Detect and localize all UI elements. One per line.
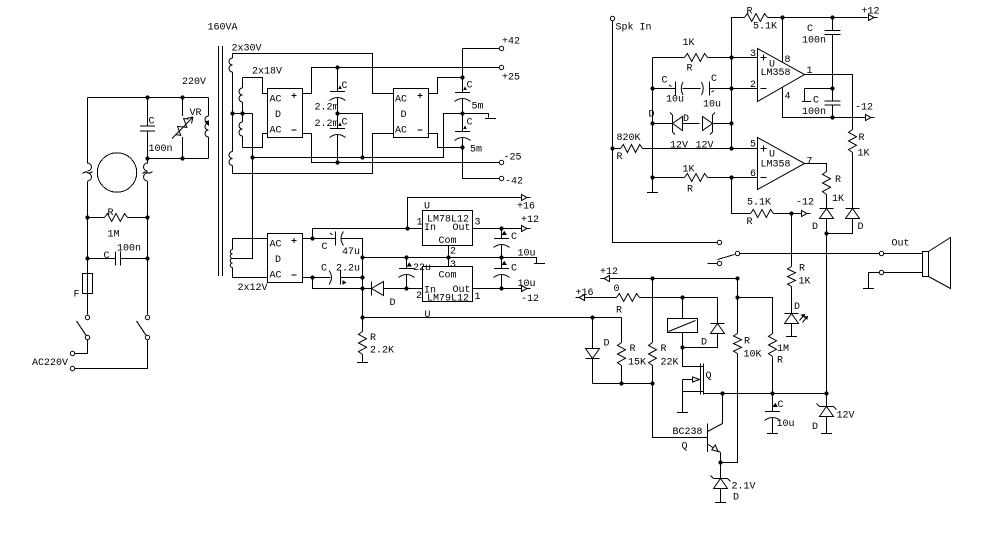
- wire -12 to LED chain: [791, 214, 793, 267]
- svg-text:C: C: [467, 81, 473, 92]
- ground below 2.1V: [715, 502, 726, 504]
- svg-text:4: 4: [785, 92, 791, 103]
- svg-text:D: D: [390, 298, 396, 309]
- node top-rail / VR junction: [180, 95, 184, 99]
- wire 2x12V bottom to rect3 AC: [233, 277, 268, 279]
- node pin6: [729, 175, 733, 179]
- node R1M right: [145, 215, 149, 219]
- svg-text:F: F: [74, 290, 80, 301]
- svg-text:LM358: LM358: [761, 68, 791, 79]
- svg-text:1: 1: [807, 66, 813, 77]
- fuse F: [74, 274, 93, 315]
- node C100n left: [85, 256, 89, 260]
- svg-text:AC220V: AC220V: [32, 358, 68, 369]
- svg-text:C: C: [321, 264, 327, 275]
- relay K coil: [668, 298, 698, 348]
- node -12 / 10u: [499, 286, 503, 290]
- wire left mains vertical (upper): [87, 98, 89, 164]
- resistor R 1K (pin6): [683, 165, 758, 196]
- svg-text:1M: 1M: [108, 230, 120, 241]
- resistor R 15K: [618, 318, 647, 384]
- resistor R 1M (timing): [738, 298, 790, 394]
- wire left mains vertical (lower): [87, 182, 89, 274]
- port +16 (regulator): [517, 195, 535, 213]
- wire mains bottom rail: [148, 158, 209, 160]
- node gate row / 22K: [650, 381, 654, 385]
- svg-text:D: D: [858, 222, 864, 233]
- transformer primary 220V winding: [205, 98, 209, 159]
- svg-text:BC238: BC238: [673, 427, 703, 438]
- svg-text:+42: +42: [502, 37, 520, 48]
- svg-text:AC: AC: [270, 271, 282, 282]
- diode D (relay flyback): [683, 298, 725, 349]
- svg-text:820K: 820K: [617, 133, 641, 144]
- svg-text:22K: 22K: [661, 358, 679, 369]
- svg-text:R: R: [747, 7, 753, 18]
- node pin8 / +12 rail: [780, 15, 784, 19]
- wire comparator chain vertical: [731, 58, 733, 149]
- svg-text:R: R: [835, 175, 841, 186]
- capacitor C 10u (-12 rail): [494, 258, 536, 291]
- svg-text:C: C: [342, 118, 348, 129]
- port +12 (op-amp): [862, 7, 880, 21]
- wire pin5 row: [732, 148, 758, 150]
- zener D 12V (timing): [812, 394, 855, 434]
- node top-rail / C junction: [145, 95, 149, 99]
- ground speaker return: [863, 288, 874, 290]
- terminal +25: [499, 65, 520, 83]
- wire zener mid: [683, 123, 700, 125]
- svg-text:-12: -12: [521, 294, 539, 305]
- wire zener row right: [713, 123, 732, 125]
- node rect3 -: [310, 275, 314, 279]
- diode D (op1 chain): [846, 209, 864, 234]
- wire zener row left: [653, 123, 670, 125]
- svg-text:12V: 12V: [670, 141, 688, 152]
- secondary winding 2x12V: [230, 238, 267, 294]
- transistor Q MOSFET: [683, 348, 712, 413]
- label AC220V: [32, 358, 68, 369]
- regulator U LM79L12: [416, 260, 481, 321]
- svg-text:R: R: [799, 264, 805, 275]
- svg-text:Out: Out: [453, 223, 471, 234]
- svg-text:R: R: [687, 185, 693, 196]
- svg-text:LM79L12: LM79L12: [427, 294, 469, 305]
- node drain rail / 12V zener: [824, 391, 828, 395]
- svg-text:3: 3: [450, 260, 456, 271]
- svg-text:C: C: [662, 76, 668, 87]
- svg-text:2: 2: [450, 247, 456, 258]
- node +12 / 10K: [735, 276, 739, 280]
- wire diode2 to node: [827, 219, 853, 234]
- svg-text:In: In: [424, 223, 436, 234]
- svg-text:1K: 1K: [858, 149, 870, 160]
- terminal fuse-switch: [85, 315, 89, 319]
- wire LM78 Out to +12: [473, 228, 522, 230]
- wire 2x18V top to rect1 AC: [243, 78, 268, 94]
- svg-text:1K: 1K: [799, 277, 811, 288]
- node zener row: [650, 121, 654, 125]
- svg-text:AC: AC: [395, 126, 407, 137]
- capacitor C 10u (series b): [702, 74, 758, 111]
- resistor R 5.1K (op1 feedback): [732, 7, 868, 58]
- node -12 rail / 100n: [830, 115, 834, 119]
- svg-text:10u: 10u: [666, 95, 684, 106]
- terminal Out (return): [879, 270, 883, 274]
- wire 2x30V top to rect2 AC: [233, 54, 394, 94]
- svg-text:47u: 47u: [342, 247, 360, 258]
- node bottom-rail / VR junction: [180, 156, 184, 160]
- node +16 branch: [405, 226, 409, 230]
- svg-text:U: U: [425, 310, 431, 321]
- node caps row left: [650, 86, 654, 90]
- svg-text:D: D: [701, 338, 707, 349]
- svg-text:R: R: [777, 356, 783, 367]
- transformer core: [219, 46, 223, 276]
- svg-text:5m: 5m: [470, 145, 482, 156]
- svg-text:D: D: [275, 110, 281, 121]
- node sense / zener tap: [590, 315, 594, 319]
- node gate row / 15K: [619, 381, 623, 385]
- wire LM79 Out to -12: [473, 288, 522, 290]
- svg-text:C: C: [322, 242, 328, 253]
- svg-text:D: D: [401, 110, 407, 121]
- svg-text:2.2m: 2.2m: [315, 103, 339, 114]
- svg-text:100n: 100n: [802, 107, 826, 118]
- terminal relay contact (from Spk In): [717, 240, 721, 244]
- svg-text:C: C: [511, 232, 517, 243]
- svg-text:10u: 10u: [777, 419, 795, 430]
- capacitor C 5m (lower): [455, 114, 483, 156]
- node pin5: [729, 146, 733, 150]
- wire +16 rail to LM78 In: [313, 229, 423, 239]
- wire detect vertical: [826, 234, 828, 394]
- wire mains top rail: [88, 97, 209, 99]
- LED D: [785, 302, 808, 337]
- svg-text:7: 7: [807, 157, 813, 168]
- svg-text:1M: 1M: [777, 344, 789, 355]
- svg-text:AC: AC: [395, 95, 407, 106]
- resistor R 10K: [734, 279, 762, 361]
- node relay top: [680, 295, 684, 299]
- node R1M left: [85, 215, 89, 219]
- svg-text:2: 2: [750, 80, 756, 91]
- svg-text:D: D: [733, 493, 739, 504]
- terminal AC220V line: [70, 351, 74, 355]
- svg-text:3: 3: [750, 49, 756, 60]
- wire speaker return: [869, 273, 923, 289]
- svg-text:D: D: [812, 422, 818, 433]
- svg-text:2.2K: 2.2K: [370, 346, 394, 357]
- capacitor C 5m (upper): [455, 78, 484, 114]
- svg-text:R: R: [747, 217, 753, 228]
- switch S1b: [137, 321, 150, 340]
- svg-text:6: 6: [750, 169, 756, 180]
- terminal AC220V neutral: [70, 366, 74, 370]
- resistor R 1K (pin3): [683, 38, 758, 75]
- wire 0V rail: [253, 114, 463, 158]
- svg-text:D: D: [649, 110, 655, 121]
- capacitor C 2.2u: [313, 264, 363, 285]
- svg-text:10u: 10u: [703, 100, 721, 111]
- wire rect2 - to -42 node: [428, 134, 463, 148]
- wire LM78 Com to mid rail: [448, 246, 450, 258]
- terminal Out (hot): [879, 239, 909, 256]
- svg-text:VR: VR: [190, 108, 202, 119]
- secondary winding 2x30V: [229, 44, 262, 174]
- capacitor C 22u: [399, 258, 432, 289]
- port +16 (protection): [576, 288, 594, 301]
- wire pin2 row: [653, 88, 676, 90]
- node rect3 +: [310, 236, 314, 240]
- svg-text:LM358: LM358: [761, 160, 791, 171]
- svg-text:2x30V: 2x30V: [232, 44, 262, 55]
- rectifier bridge D (12V): [268, 234, 303, 283]
- svg-text:2x18V: 2x18V: [252, 67, 282, 78]
- node +42 / 5m cap: [460, 75, 464, 79]
- wire pin3 row: [653, 57, 685, 59]
- svg-text:-25: -25: [504, 153, 522, 164]
- svg-text:2x12V: 2x12V: [238, 283, 268, 294]
- wire 5m midpoint to ground: [463, 114, 489, 118]
- svg-text:1: 1: [475, 292, 481, 303]
- node pin3: [729, 55, 733, 59]
- node 2x18V center tap: [240, 111, 244, 115]
- capacitor C 100n (across lamp): [88, 244, 148, 266]
- node BC collector: [720, 391, 724, 395]
- svg-text:1K: 1K: [683, 165, 695, 176]
- node pin6-row left: [650, 175, 654, 179]
- wire 2.2u to diode row: [362, 278, 364, 318]
- node 820K tap: [610, 146, 614, 150]
- svg-text:15K: 15K: [628, 358, 646, 369]
- zener D 12V (left): [649, 110, 689, 152]
- wire 47u-2.2u vertical: [362, 239, 364, 279]
- wire rect3 - node: [303, 277, 313, 279]
- ground left network: [647, 192, 658, 194]
- label 160VA: [208, 23, 238, 34]
- wire mid rail: [363, 258, 537, 263]
- transistor Q BC238: [653, 384, 723, 463]
- svg-text:2: 2: [416, 291, 422, 302]
- wire +42 stub: [463, 49, 500, 78]
- wire +16 branch: [408, 198, 522, 229]
- svg-text:+12: +12: [521, 215, 539, 226]
- svg-text:8: 8: [785, 55, 791, 66]
- node sense rail: [360, 315, 364, 319]
- svg-text:R: R: [370, 333, 376, 344]
- node drain rail / 1M: [770, 391, 774, 395]
- svg-text:D: D: [812, 222, 818, 233]
- node detect: [824, 231, 828, 235]
- wire 2.2m midpoint to 0V rail: [338, 114, 363, 158]
- svg-text:160VA: 160VA: [208, 23, 238, 34]
- node 1M tap: [735, 295, 739, 299]
- terminal -25: [499, 153, 521, 165]
- wire neutral run: [75, 340, 148, 369]
- node 2x30V center tap: [230, 111, 234, 115]
- svg-text:C: C: [807, 24, 813, 35]
- svg-text:R: R: [744, 337, 750, 348]
- capacitor C 100n (mains filter): [140, 98, 173, 159]
- svg-text:AC: AC: [270, 240, 282, 251]
- lamp lead coils: [83, 163, 153, 181]
- node op2 5.1K / -12: [789, 211, 793, 215]
- svg-text:100n: 100n: [117, 244, 141, 255]
- svg-text:C: C: [104, 251, 110, 262]
- capacitor C 100n (+12 decoupling): [802, 18, 841, 89]
- node 2.2m midpoint: [335, 111, 339, 115]
- switch relay contact: [708, 251, 740, 265]
- wire pin4 to -12: [783, 88, 866, 118]
- diode D (op2 chain): [812, 209, 834, 234]
- node -42 / 5m cap: [460, 145, 464, 149]
- node mid rail / 22u: [404, 255, 408, 259]
- svg-text:C: C: [711, 74, 717, 85]
- port -12 (regulator): [521, 286, 539, 306]
- wire 2x12V top to rect3 AC: [233, 238, 268, 240]
- wire 2x18V bottom to rect1 AC: [243, 134, 268, 148]
- svg-text:12V: 12V: [837, 411, 855, 422]
- node +12 / 22K: [650, 276, 654, 280]
- svg-text:0: 0: [614, 284, 620, 295]
- node 0V rail / 2.2m link: [360, 155, 364, 159]
- wire pin8: [782, 18, 784, 63]
- node mid rail / Com: [446, 255, 450, 259]
- svg-text:1K: 1K: [683, 38, 695, 49]
- port +12 (regulator): [521, 215, 539, 232]
- rectifier bridge D (30V): [394, 89, 429, 138]
- diode D (to LM79 In): [313, 278, 423, 310]
- wire op1 output: [805, 75, 853, 130]
- capacitor C 10u (series a): [662, 76, 701, 106]
- svg-text:Q: Q: [682, 442, 688, 453]
- capacitor C 2.2m (lower): [315, 114, 348, 163]
- regulator U LM78L12: [417, 202, 481, 258]
- wire right mains vertical: [147, 159, 149, 315]
- svg-text:10K: 10K: [744, 350, 762, 361]
- ground below LED: [786, 336, 797, 338]
- wire Out to speaker: [884, 253, 923, 255]
- node +12 rail / 100n: [830, 15, 834, 19]
- resistor R (+16 series): [585, 294, 718, 317]
- node diode row / vertical: [360, 286, 364, 290]
- svg-text:C: C: [778, 400, 784, 411]
- svg-text:D: D: [275, 255, 281, 266]
- diode D (sense): [586, 318, 610, 384]
- capacitor C 10u (timing): [765, 394, 795, 434]
- node BC emitter: [718, 460, 722, 464]
- node pin2: [729, 86, 733, 90]
- ground below 10u: [767, 433, 778, 435]
- resistor R 2.2K: [359, 289, 395, 363]
- svg-text:C: C: [149, 117, 155, 128]
- svg-text:D: D: [604, 339, 610, 350]
- resistor R 1M (discharge): [88, 208, 148, 241]
- svg-text:-42: -42: [505, 177, 523, 188]
- wire rect3 + node: [303, 238, 313, 240]
- wire 2x30V bottom to rect2 AC: [233, 134, 394, 174]
- port +12 (protection): [600, 267, 620, 295]
- svg-text:-12: -12: [855, 103, 873, 114]
- svg-text:AC: AC: [270, 95, 282, 106]
- ground at 100n midpoint: [802, 89, 833, 102]
- ground at 5m midpoint: [485, 118, 496, 120]
- wire emitter to 10K: [721, 354, 738, 463]
- wire drain rail: [704, 393, 827, 395]
- capacitor C 10u (+12 rail): [494, 229, 536, 260]
- wire +12 rail (protection): [610, 278, 738, 280]
- svg-text:Q: Q: [706, 371, 712, 382]
- svg-text:2.2m: 2.2m: [315, 119, 339, 130]
- svg-text:220V: 220V: [182, 77, 206, 88]
- wire -42 stub: [463, 148, 500, 179]
- svg-text:1: 1: [417, 218, 423, 229]
- svg-text:1K: 1K: [832, 194, 844, 205]
- ground below 12V zener: [821, 433, 832, 435]
- svg-text:C: C: [467, 118, 473, 129]
- varistor VR: [172, 98, 202, 159]
- svg-text:R: R: [108, 208, 114, 219]
- wire sense rail (to protection): [363, 317, 622, 319]
- node zener row right: [729, 121, 733, 125]
- wire center taps to 0V rail: [233, 114, 253, 259]
- wire Spk In vertical: [613, 21, 718, 243]
- speaker SP: [923, 238, 951, 289]
- resistor R 820K: [613, 133, 758, 163]
- wire op2 output: [805, 164, 827, 172]
- node mid rail / 10u top: [499, 255, 503, 259]
- ground below R 2.2K: [357, 362, 368, 364]
- label 220V: [182, 77, 206, 88]
- capacitor C 47u: [313, 232, 363, 259]
- port -12 (op-amp): [855, 103, 875, 121]
- svg-text:Spk In: Spk In: [616, 22, 652, 34]
- svg-text:5.1K: 5.1K: [753, 22, 777, 33]
- terminal Spk In: [610, 16, 651, 33]
- terminal switch S1b top: [145, 315, 149, 319]
- wire contact to Out: [740, 253, 880, 255]
- wire pin6 row: [653, 177, 685, 179]
- svg-text:D: D: [794, 302, 800, 313]
- op-amp U LM358 (second): [750, 138, 813, 190]
- node C100n right: [145, 256, 149, 260]
- wire rect1 + to +25 rail: [303, 68, 500, 94]
- node bottom-rail junction: [145, 156, 149, 160]
- svg-text:+25: +25: [502, 73, 520, 84]
- svg-text:C: C: [511, 264, 517, 275]
- port -12 (comparator): [792, 198, 815, 217]
- svg-text:C: C: [342, 81, 348, 92]
- wire diode to node: [826, 219, 828, 234]
- zener D 12V (right): [683, 113, 715, 152]
- wire LM79 Com to mid rail: [448, 258, 450, 267]
- terminal -42: [499, 176, 523, 187]
- ground mid rail: [534, 258, 545, 264]
- svg-text:100n: 100n: [802, 36, 826, 47]
- capacitor C 100n (-12 decoupling): [802, 89, 841, 119]
- capacitor C 2.2m (upper): [315, 68, 348, 114]
- terminal +42: [499, 37, 520, 51]
- svg-text:100n: 100n: [149, 144, 173, 155]
- node cap row / vertical: [360, 275, 364, 279]
- resistor R 5.1K (op2 feedback): [732, 178, 792, 229]
- svg-text:12V: 12V: [696, 141, 714, 152]
- svg-text:Com: Com: [439, 236, 457, 247]
- svg-text:5.1K: 5.1K: [747, 198, 771, 209]
- node center-tap / 0V rail: [250, 155, 254, 159]
- wire rect2 + to +42: [429, 78, 463, 94]
